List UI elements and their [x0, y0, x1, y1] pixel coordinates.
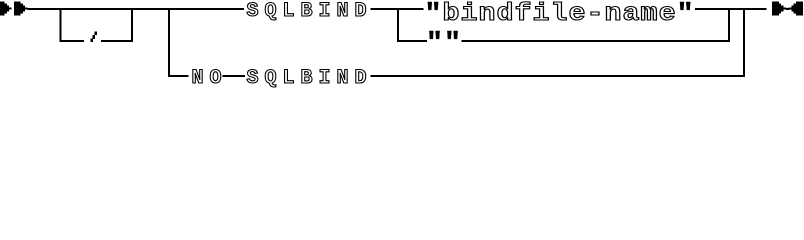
svg-text:bindfile-name: bindfile-name [443, 0, 677, 27]
svg-text:": " [677, 0, 695, 27]
svg-text:SQLBIND: SQLBIND [247, 67, 373, 90]
svg-text:SQLBIND: SQLBIND [247, 0, 373, 23]
svg-text:": " [424, 0, 442, 27]
svg-text:"": "" [426, 29, 462, 57]
svg-text:NO: NO [192, 67, 228, 90]
